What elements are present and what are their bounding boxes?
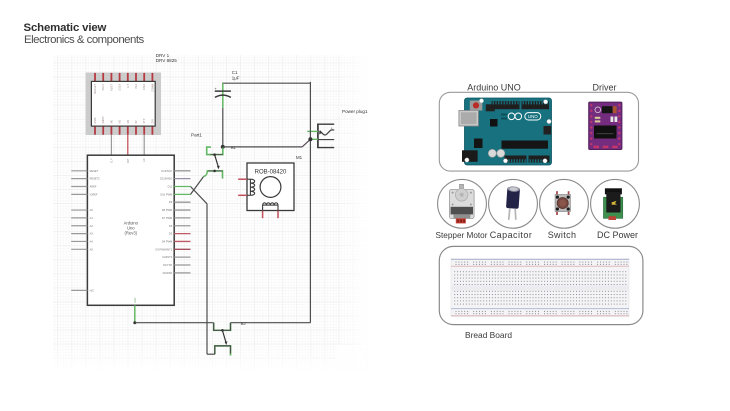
svg-text:M1: M1 [296, 155, 303, 160]
svg-text:IOREF: IOREF [90, 192, 98, 196]
svg-text:A3: A3 [90, 232, 94, 236]
svg-text:M2: M2 [127, 119, 130, 123]
svg-text:1μF: 1μF [232, 75, 240, 80]
svg-text:B2: B2 [241, 321, 247, 326]
svg-text:D10 PWM: D10 PWM [160, 192, 172, 196]
svg-text:D11: D11 [168, 185, 173, 189]
svg-text:Arduino UNO: Arduino UNO [467, 83, 521, 93]
svg-text:A1/ST: A1/ST [110, 84, 113, 91]
svg-text:Part1: Part1 [191, 133, 202, 138]
svg-text:D8 PWM: D8 PWM [162, 208, 172, 212]
svg-text:D6: D6 [169, 224, 173, 228]
svg-text:RST: RST [127, 158, 130, 163]
svg-text:FLT: FLT [127, 84, 130, 89]
svg-text:Driver: Driver [593, 83, 617, 93]
svg-text:Capacitor: Capacitor [490, 230, 533, 240]
svg-text:DRV 8825: DRV 8825 [156, 58, 178, 63]
svg-text:L/D1A: L/D1A [119, 84, 122, 91]
svg-text:D0/RXD: D0/RXD [163, 271, 173, 275]
svg-text:GND: GND [134, 297, 137, 303]
svg-text:(Rev3): (Rev3) [125, 231, 138, 236]
svg-text:D12/MISO: D12/MISO [160, 177, 172, 181]
svg-text:ENBL: ENBL [94, 116, 97, 123]
svg-text:AREF: AREF [90, 185, 97, 189]
svg-text:A0: A0 [90, 208, 94, 212]
svg-text:D3 PWM/INT1: D3 PWM/INT1 [155, 247, 172, 251]
svg-text:N/C: N/C [90, 288, 95, 292]
svg-text:Stepper Motor: Stepper Motor [436, 231, 488, 240]
svg-text:DIR: DIR [151, 119, 154, 124]
svg-text:EN: EN [143, 158, 146, 162]
svg-text:A2: A2 [90, 224, 94, 228]
svg-text:D1/TXD: D1/TXD [163, 263, 172, 267]
svg-text:SLP: SLP [110, 158, 113, 163]
svg-text:P1A: P1A [135, 84, 138, 89]
svg-text:M1: M1 [119, 119, 122, 123]
svg-text:ROB-08420: ROB-08420 [255, 169, 287, 175]
svg-text:Schematic view: Schematic view [24, 22, 107, 34]
svg-text:RESET: RESET [90, 169, 99, 173]
svg-text:A1: A1 [90, 216, 94, 220]
svg-text:-: - [331, 144, 332, 148]
svg-text:STP: STP [143, 118, 146, 123]
svg-text:B1: B1 [231, 145, 237, 150]
svg-text:VMOT: VMOT [102, 116, 105, 124]
svg-text:D7 PWM: D7 PWM [162, 216, 172, 220]
svg-text:+: + [331, 127, 333, 131]
svg-text:Electronics & components: Electronics & components [24, 34, 144, 46]
svg-text:A4: A4 [90, 239, 94, 243]
svg-text:NSLP: NSLP [102, 84, 105, 91]
svg-text:Bread Board: Bread Board [465, 330, 512, 340]
svg-text:D13/SCK: D13/SCK [161, 169, 172, 173]
svg-text:M0: M0 [110, 119, 113, 123]
svg-text:C1: C1 [232, 70, 238, 75]
svg-text:AT1A: AT1A [143, 84, 146, 90]
svg-text:UNO: UNO [528, 114, 538, 119]
svg-text:D9: D9 [169, 200, 173, 204]
svg-text:Power plug1: Power plug1 [342, 109, 368, 114]
svg-text:NRESET: NRESET [94, 84, 97, 95]
svg-text:DC Power: DC Power [597, 230, 638, 240]
svg-text:RESET2: RESET2 [90, 177, 101, 181]
svg-text:D5: D5 [169, 232, 173, 236]
svg-text:D4 PWM: D4 PWM [162, 239, 172, 243]
svg-text:D2/INT0: D2/INT0 [163, 255, 173, 259]
svg-text:Switch: Switch [548, 230, 577, 240]
svg-text:COMM: COMM [151, 84, 154, 92]
svg-text:A5: A5 [90, 247, 94, 251]
